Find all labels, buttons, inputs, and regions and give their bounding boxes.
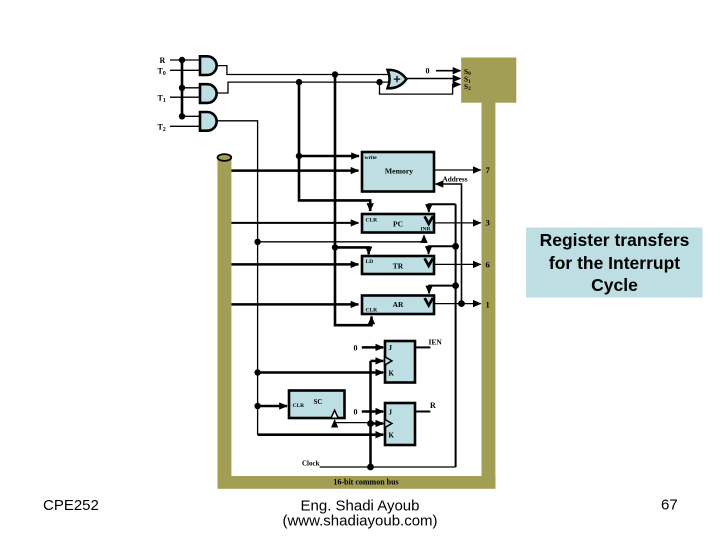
wire G1 output to OR gate xyxy=(217,66,388,75)
wire R to G2 xyxy=(182,87,200,89)
svg-text:LD: LD xyxy=(366,259,374,265)
node RT2 INR branch xyxy=(254,239,260,245)
flip-flop IEN xyxy=(385,341,415,383)
node RT0 TR branch xyxy=(332,244,338,250)
or gate U1 (S1 = RT0 + RT1) xyxy=(388,70,407,88)
svg-text:T1: T1 xyxy=(158,93,166,104)
svg-text:T2: T2 xyxy=(158,123,166,134)
svg-text:J: J xyxy=(389,344,393,352)
and gate G3 (R T2) xyxy=(200,112,217,131)
svg-text:T0: T0 xyxy=(158,67,166,78)
node RT2 SC branch xyxy=(254,403,260,409)
svg-text:IEN: IEN xyxy=(429,338,443,347)
svg-text:6: 6 xyxy=(486,259,491,269)
sequence counter SC xyxy=(289,391,345,419)
svg-text:write: write xyxy=(365,155,378,161)
wire RT0 vertical xyxy=(335,75,372,326)
wire RT2 to PC INR xyxy=(258,235,424,242)
wire clock vertical to flip-flops xyxy=(371,360,384,363)
svg-text:0: 0 xyxy=(354,408,358,417)
svg-text:0: 0 xyxy=(426,67,430,76)
svg-text:16-bit common bus: 16-bit common bus xyxy=(333,477,398,486)
svg-text:PC: PC xyxy=(393,220,403,229)
wire bus to memory data xyxy=(231,169,358,172)
flip-flop R xyxy=(385,403,415,445)
wire bus to TR data xyxy=(231,263,358,266)
svg-text:K: K xyxy=(389,432,395,440)
wire G2 output to OR gate xyxy=(217,82,389,93)
wire PC output to bus 3 xyxy=(434,222,481,224)
wire clock vertical to registers xyxy=(455,204,457,467)
node clock at bus line xyxy=(367,464,374,471)
wire bus to PC data xyxy=(231,222,358,224)
wire T0 input xyxy=(170,69,200,71)
node RT1 write branch xyxy=(296,153,302,159)
wire RT1 to memory write xyxy=(299,155,359,158)
wire R distribution vertical xyxy=(181,60,184,116)
svg-text:CLR: CLR xyxy=(366,217,379,223)
wire TR output to bus 6 xyxy=(434,263,481,265)
bus bar left (common bus return) xyxy=(218,157,232,482)
svg-text:INR: INR xyxy=(421,227,432,233)
bus pipe cap xyxy=(218,154,232,161)
svg-text:Register transfers: Register transfers xyxy=(540,230,690,250)
svg-text:SC: SC xyxy=(314,398,323,406)
wire OR output to S1 xyxy=(406,78,460,80)
node clock AR branch xyxy=(452,282,459,289)
svg-text:3: 3 xyxy=(486,218,490,228)
wire 0 to R J xyxy=(362,410,384,413)
wire bus to AR data xyxy=(231,303,358,306)
node RT0 tap xyxy=(332,71,338,77)
svg-text:CPE252: CPE252 xyxy=(43,497,99,514)
node junction R-G3 xyxy=(179,113,185,119)
svg-text:Clock: Clock xyxy=(302,460,320,468)
node junction R-G1 xyxy=(179,57,185,63)
register TR xyxy=(362,256,434,274)
wire RT2 to R K xyxy=(258,433,384,436)
wire G3 output (RT2) xyxy=(217,121,258,435)
wire T2 input xyxy=(170,125,200,127)
bus bar right (register outputs to bus) xyxy=(482,100,496,481)
svg-text:R: R xyxy=(160,56,166,65)
svg-text:J: J xyxy=(389,408,393,416)
svg-text:(www.shadiayoub.com): (www.shadiayoub.com) xyxy=(282,512,437,529)
svg-text:Address: Address xyxy=(443,176,468,184)
node RT2 IEN branch xyxy=(254,369,260,375)
memory block xyxy=(362,152,434,192)
svg-text:0: 0 xyxy=(354,343,358,352)
svg-text:CLR: CLR xyxy=(366,308,379,314)
wire R output xyxy=(415,411,430,413)
wire clock to AR V xyxy=(429,286,456,294)
wire T1 input xyxy=(170,96,200,98)
wire RT2 to IEN K xyxy=(258,371,384,374)
wire 0 to S0 xyxy=(436,70,461,72)
bus bar bottom (16-bit common bus) xyxy=(218,476,496,489)
svg-text:7: 7 xyxy=(486,165,491,175)
wire AR output to bus 1 xyxy=(434,303,481,305)
register PC xyxy=(362,214,434,233)
svg-text:CLR: CLR xyxy=(293,403,306,409)
svg-text:K: K xyxy=(389,370,395,378)
bus select block S xyxy=(461,58,516,103)
wire address AR to memory xyxy=(436,184,462,304)
wire RT1 vertical xyxy=(299,82,370,211)
title text box: Register transfers for the Interrupt Cycle xyxy=(526,228,703,298)
register AR xyxy=(362,296,434,315)
svg-text:67: 67 xyxy=(661,496,678,513)
svg-text:AR: AR xyxy=(393,300,404,309)
node clock TR branch xyxy=(452,243,459,250)
svg-text:for the Interrupt: for the Interrupt xyxy=(549,253,680,273)
node RT1 tap xyxy=(296,79,302,85)
and gate G2 (R T1) xyxy=(200,84,217,103)
wire RT0 to TR LD xyxy=(335,247,369,254)
wire R to G3 xyxy=(182,115,200,117)
wire memory output to bus 7 xyxy=(434,169,481,171)
wire 0 to IEN J xyxy=(362,346,384,349)
wire clock to PC V xyxy=(429,204,456,212)
wire R input xyxy=(170,59,200,61)
node junction R-G2 xyxy=(179,85,185,91)
wire clock bottom line xyxy=(320,466,456,468)
wire IEN output xyxy=(415,346,430,348)
svg-text:Memory: Memory xyxy=(385,167,413,176)
wire RT1 to S2 xyxy=(380,82,461,94)
wire clock to TR V xyxy=(429,246,456,254)
svg-text:R: R xyxy=(430,401,436,410)
node address tap on AR output xyxy=(458,300,465,307)
wire RT2 to SC CLR xyxy=(258,405,287,408)
wire clock to SC xyxy=(335,420,371,423)
svg-text:Cycle: Cycle xyxy=(591,275,638,295)
node S2 tap xyxy=(376,79,382,85)
wire clock to R FF xyxy=(371,422,384,425)
svg-text:TR: TR xyxy=(393,262,404,271)
node clock R FF branch xyxy=(367,420,374,427)
svg-text:1: 1 xyxy=(486,299,490,309)
and gate G1 (R T0) xyxy=(200,56,217,75)
